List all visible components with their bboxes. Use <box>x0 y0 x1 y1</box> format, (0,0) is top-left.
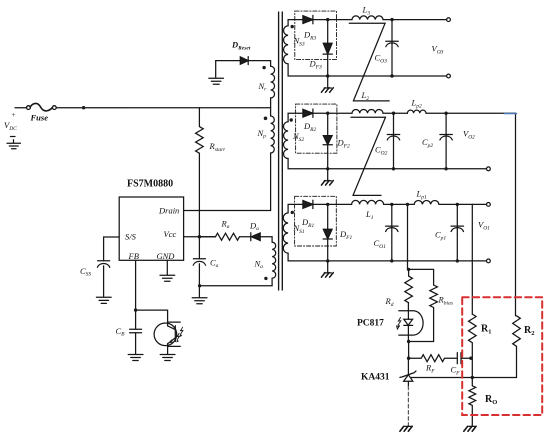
resistor R_a <box>199 233 250 240</box>
svg-text:Ca: Ca <box>210 258 219 270</box>
svg-text:GND: GND <box>157 251 176 261</box>
diode D_F3 (freewheel) <box>323 20 332 76</box>
label Np <box>257 128 267 140</box>
pin S/S <box>125 231 137 241</box>
resistor R_start <box>196 108 204 237</box>
svg-text:Drain: Drain <box>158 206 179 216</box>
junction R_F branch <box>407 357 410 360</box>
wire Vdc to fuse <box>15 107 27 109</box>
terminal V_O3 minus <box>447 74 451 78</box>
diode D_R2 <box>303 109 313 117</box>
label L_1 <box>365 209 374 221</box>
label C_B <box>116 326 126 338</box>
wire FB pin down <box>135 260 137 329</box>
snubber cell box (D_R2/D_F2) <box>296 104 337 153</box>
wire Na bottom to Ca node <box>200 278 273 286</box>
polarity dot N_S3 <box>291 25 294 28</box>
polarity dot Na <box>264 277 267 280</box>
wire C_O2 node to L_p2 <box>394 112 408 114</box>
label L_2 <box>361 90 370 102</box>
wire L_p1 to C_p1 node <box>439 203 457 205</box>
svg-text:RO: RO <box>485 394 497 406</box>
svg-text:Rstart: Rstart <box>209 141 226 153</box>
label Nr <box>258 81 268 93</box>
node Vdc plus terminal <box>11 111 16 119</box>
svg-text:Rd: Rd <box>385 296 394 308</box>
snubber cell box (D_R1/D_F1) <box>295 196 337 246</box>
label N_S3 <box>293 36 305 48</box>
svg-text:CO1: CO1 <box>374 238 387 250</box>
label V_O1 <box>478 220 490 232</box>
ground (Vdc) <box>7 140 21 149</box>
junction C_p1 bottom <box>456 259 459 262</box>
opto LED D1 (PC817 input) <box>399 303 423 342</box>
wire Nr bottom to rail <box>270 98 272 116</box>
label D_Reset <box>231 40 251 52</box>
capacitor C_B <box>130 329 142 354</box>
label L_p1 <box>416 189 427 201</box>
opto transistor Q1 (PC817 output) <box>154 322 180 354</box>
label C_O1 <box>374 238 387 250</box>
label R_O <box>485 394 497 406</box>
svg-text:Fuse: Fuse <box>30 113 49 123</box>
polarity dot N_S2 <box>290 118 293 121</box>
junction LED cathode / R_bias <box>407 340 410 343</box>
svg-text:VO3: VO3 <box>432 44 444 56</box>
wire N_S3 top to D_R3 <box>288 20 303 26</box>
ground (D_Reset anode) <box>209 61 224 85</box>
svg-text:DF3: DF3 <box>309 59 323 71</box>
svg-text:R2: R2 <box>524 325 534 337</box>
terminal V_O3 plus <box>447 18 451 22</box>
label PC817 <box>357 319 384 329</box>
ground (C_B) <box>128 355 143 361</box>
label Css <box>80 266 91 278</box>
junction C_p2 bottom <box>444 167 447 170</box>
label D_F3 <box>309 59 323 71</box>
wire Vcc pin to node <box>184 236 216 238</box>
resistor R_2 <box>513 316 521 378</box>
light arrows from LED <box>397 318 401 330</box>
label Fuse <box>30 113 49 123</box>
junction C_O2 top <box>392 112 395 115</box>
label R_d <box>385 296 394 308</box>
junction FB node <box>134 308 137 311</box>
label R_bias <box>438 295 453 307</box>
label FS7M0880 <box>127 179 173 190</box>
winding N_S2 <box>284 122 289 159</box>
shunt regulator U2 KA431 <box>400 358 416 386</box>
junction C_O3 bottom <box>390 74 393 77</box>
svg-text:PC817: PC817 <box>357 319 384 329</box>
svg-text:CF: CF <box>451 365 461 377</box>
svg-text:L2: L2 <box>361 90 370 102</box>
polarity dot Np <box>264 117 268 121</box>
terminal V_O1 plus <box>487 203 491 207</box>
label C_F <box>451 365 461 377</box>
junction C_O2 bottom <box>392 167 395 170</box>
svg-text:FB: FB <box>128 251 139 261</box>
capacitor C_a <box>193 237 205 298</box>
coupling bar under L_2 <box>351 116 386 118</box>
inductor L_p2 <box>407 110 426 113</box>
wire sense tap on V_O1 rail <box>407 204 409 269</box>
junction D_F1 top <box>326 203 329 206</box>
capacitor C_O3 <box>386 20 398 76</box>
svg-text:R1: R1 <box>481 324 491 336</box>
junction sense tap <box>406 203 409 206</box>
svg-text:DR1: DR1 <box>301 217 315 229</box>
wire KA431 anode (dashed) <box>407 386 409 425</box>
wire Np bottom to Drain <box>184 153 271 211</box>
label R_1 <box>481 324 491 336</box>
winding Na (aux) <box>272 242 276 278</box>
label C_O2 <box>375 145 388 157</box>
svg-text:Na: Na <box>254 259 264 271</box>
label V_O3 <box>432 44 444 56</box>
ground (stage 1 return) <box>324 261 331 273</box>
capacitor C_O2 <box>387 113 399 169</box>
wire D_Reset cathode to Nr top <box>248 61 270 67</box>
junction D_F3 top <box>326 18 329 21</box>
inductor L_p1 <box>414 200 439 204</box>
junction D_F1 bottom <box>326 259 329 262</box>
wire L_1 to C_O1 node <box>384 203 392 205</box>
svg-text:VO2: VO2 <box>463 129 475 141</box>
svg-text:DReset: DReset <box>231 40 251 52</box>
winding Np (primary) <box>271 116 275 153</box>
junction C_O3 top <box>390 18 393 21</box>
svg-text:DR3: DR3 <box>303 30 317 42</box>
label R_2 <box>524 325 534 337</box>
pin GND <box>157 251 176 261</box>
label D_R2 <box>303 121 317 133</box>
svg-text:DF1: DF1 <box>339 229 353 241</box>
inductor L_2 <box>352 110 383 114</box>
wire D_Reset anode <box>216 60 241 62</box>
svg-text:L3: L3 <box>362 5 371 17</box>
terminal V_O1 minus <box>487 259 491 263</box>
pin Drain <box>158 206 179 216</box>
label KA431 <box>361 373 390 383</box>
label L_p2 <box>411 98 422 110</box>
terminal V_O2 minus <box>487 167 491 171</box>
ground (C_a) <box>192 298 207 304</box>
svg-text:Ra: Ra <box>221 219 230 231</box>
junction divider node <box>471 376 474 379</box>
wire N_S1 top to D_R1 <box>288 204 303 213</box>
ground (Css) <box>96 297 111 303</box>
capacitor C_p1 <box>451 204 463 261</box>
coupling bar over L_2 <box>353 100 389 102</box>
svg-text:CSS: CSS <box>80 266 91 278</box>
light arrows into Q1 <box>176 327 183 342</box>
wire N_S1 bottom rail <box>288 253 486 261</box>
svg-text:FS7M0880: FS7M0880 <box>127 179 173 190</box>
wire L_2 to C_O2 node <box>383 112 394 114</box>
wire N_S2 bottom rail <box>288 159 486 169</box>
polarity dot Nr <box>262 66 265 69</box>
capacitor Css <box>97 261 109 297</box>
label D_R3 <box>303 30 317 42</box>
resistor R_d <box>405 269 413 302</box>
svg-text:DF2: DF2 <box>337 138 351 150</box>
label Na <box>254 259 264 271</box>
pin Vcc <box>164 229 177 239</box>
wire D_R2 to L_2 <box>313 112 352 114</box>
label N_S2 <box>292 131 304 143</box>
diode D_Reset <box>240 57 248 65</box>
wire L_p2 to C_p2 node <box>426 112 446 114</box>
svg-text:Np: Np <box>257 128 267 140</box>
wire D_R3 to L_3 <box>313 19 352 21</box>
winding N_S3 <box>284 26 289 64</box>
junction D_F2 top <box>326 112 329 115</box>
wire L_p1 node to +terminal <box>457 203 486 205</box>
wire R_1 feed from V_O1 rail <box>471 204 473 314</box>
wire N_S2 top to D_R2 <box>288 113 303 122</box>
junction C_p2 top <box>444 112 447 115</box>
label R_F <box>425 363 435 375</box>
svg-text:Lp1: Lp1 <box>416 189 427 201</box>
coupling bar over L_1 <box>353 194 381 196</box>
diode D_F1 (freewheel) <box>323 204 332 261</box>
resistor R_F <box>409 355 458 362</box>
junction C_O1 bottom <box>390 259 393 262</box>
wire fuse to transformer primary (input rail) <box>56 107 270 109</box>
coupling diagonal L_3 to L_2 <box>353 23 385 101</box>
snubber cell box (D_R3/D_F3) <box>295 11 337 60</box>
ground (KA431) <box>405 425 412 427</box>
Vdc source label <box>4 120 17 132</box>
svg-text:CO2: CO2 <box>375 145 388 157</box>
wire L_3 node to +terminal <box>392 19 447 21</box>
junction Vcc node <box>198 235 201 238</box>
coupling diagonal L_2 to L_1 <box>353 117 386 195</box>
junction Ca/Na node <box>198 284 201 287</box>
label R_start <box>209 141 226 153</box>
diode D_a <box>251 233 260 241</box>
svg-text:Vcc: Vcc <box>164 229 177 239</box>
diode D_R1 <box>303 200 313 208</box>
svg-text:NS2: NS2 <box>292 131 304 143</box>
IC U1 FS7M0880 box <box>119 197 183 260</box>
resistor R_O <box>469 378 476 427</box>
label L_3 <box>362 5 371 17</box>
resistor R_bias <box>410 285 437 342</box>
svg-text:KA431: KA431 <box>361 373 390 383</box>
coupling bar under L_3 <box>349 22 385 24</box>
label C_O3 <box>375 53 388 65</box>
svg-text:Cp2: Cp2 <box>422 137 433 149</box>
label C_a <box>210 258 219 270</box>
ground (stage 2 return) <box>324 169 331 181</box>
ground (Q1 emitter) <box>160 355 175 361</box>
svg-text:VO1: VO1 <box>478 220 490 232</box>
svg-text:DR2: DR2 <box>303 121 317 133</box>
junction D_F2 bottom <box>326 167 329 170</box>
resistor R_1 <box>469 314 477 377</box>
sense divider box <box>462 297 542 415</box>
ground (R_O) <box>469 425 476 427</box>
junction on input rail <box>82 106 85 109</box>
label V_O2 <box>463 129 475 141</box>
label C_p2 <box>422 137 433 149</box>
wire S/S pin to Css <box>104 237 120 261</box>
label D_R1 <box>301 217 315 229</box>
wire D_R1 to L_1 <box>313 203 352 205</box>
svg-text:Da: Da <box>249 221 259 233</box>
svg-text:L1: L1 <box>365 209 374 221</box>
svg-text:S/S: S/S <box>125 231 137 241</box>
inductor L_1 <box>352 200 384 204</box>
svg-text:Lp2: Lp2 <box>411 98 422 110</box>
wire D_a to Na top <box>260 237 272 243</box>
label D_a <box>249 221 259 233</box>
junction D_F3 bottom <box>326 74 329 77</box>
wire GND pin down <box>166 260 168 275</box>
transformer core <box>279 12 283 290</box>
label D_F2 <box>337 138 351 150</box>
winding N_S1 <box>283 213 288 253</box>
wire FB node to opto transistor <box>136 310 168 322</box>
junction C_O1 top <box>390 203 393 206</box>
wire LED cathode to R_F node <box>408 342 410 359</box>
capacitor C_O1 <box>386 204 398 261</box>
diode D_R3 <box>303 15 313 23</box>
wire C_p2 node to corner feed <box>446 113 515 316</box>
wire C_O1 node to L_p1 <box>392 203 414 205</box>
wire N_S3 bottom rail <box>288 64 447 76</box>
junction R_d / R_bias split <box>407 268 410 271</box>
label C_p1 <box>435 230 446 242</box>
svg-text:Nr: Nr <box>258 81 268 93</box>
label R_a <box>221 219 230 231</box>
polarity dot N_S1 <box>291 211 294 214</box>
svg-text:Cp1: Cp1 <box>435 230 446 242</box>
wire split to R_bias top <box>409 269 434 285</box>
svg-text:VDC: VDC <box>4 120 17 132</box>
svg-text:Rbias: Rbias <box>438 295 453 307</box>
capacitor C_F <box>457 353 471 364</box>
svg-text:CB: CB <box>116 326 126 338</box>
junction C_F to R_1 leg <box>469 357 472 360</box>
wire L_3 to C_O3 node <box>383 19 392 21</box>
svg-text:CO3: CO3 <box>375 53 388 65</box>
label N_S1 <box>293 223 305 235</box>
capacitor C_p2 <box>440 113 452 169</box>
svg-text:+: + <box>11 111 16 119</box>
diode D_F2 (freewheel) <box>323 113 332 169</box>
inductor L_3 <box>352 16 383 20</box>
ground (stage 3 return) <box>324 76 331 88</box>
junction C_p1 top <box>456 203 459 206</box>
wire KA431 ref to divider <box>411 377 516 379</box>
pin FB <box>128 251 139 261</box>
artifact blue mark at corner <box>505 113 517 115</box>
ground (IC GND) <box>160 275 175 281</box>
node Vdc minus terminal <box>11 136 16 138</box>
fuse F1 <box>27 103 57 110</box>
label D_F1 <box>339 229 353 241</box>
svg-text:RF: RF <box>425 363 435 375</box>
winding Nr (reset) <box>271 66 275 98</box>
